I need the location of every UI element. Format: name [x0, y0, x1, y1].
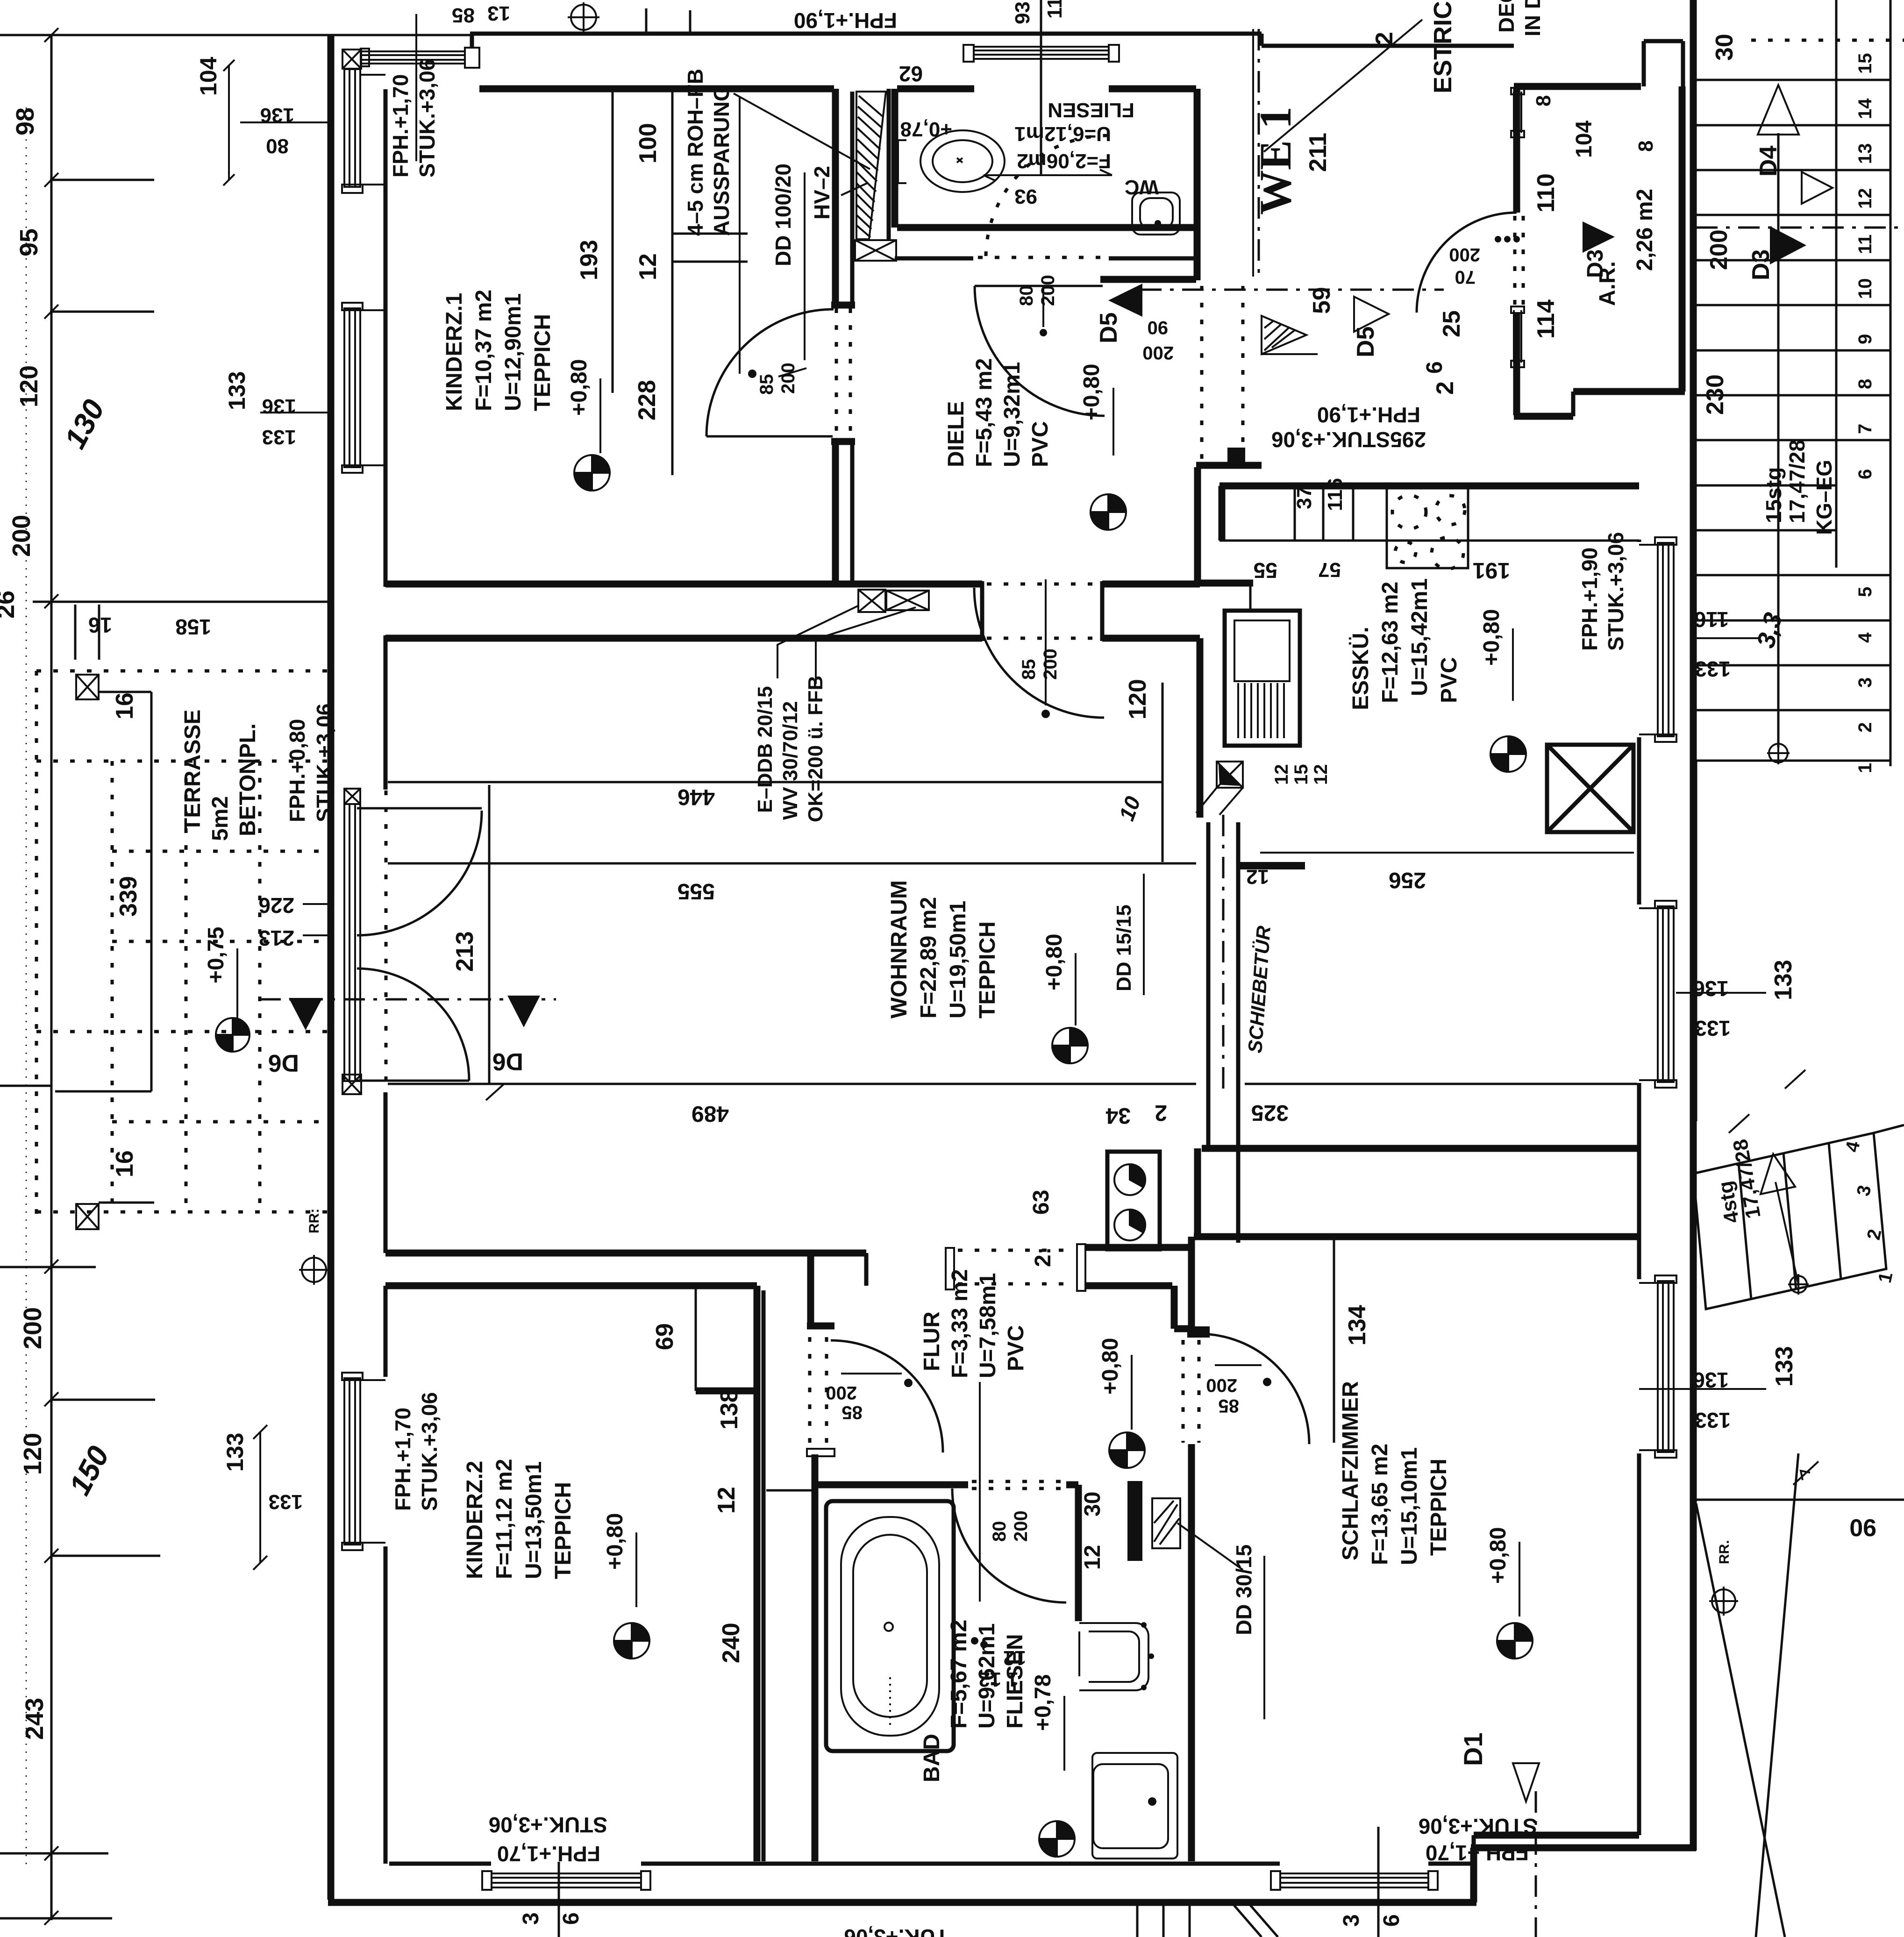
svg-text:D6: D6: [492, 1048, 523, 1075]
svg-text:133: 133: [1771, 1346, 1798, 1387]
svg-text:37: 37: [1293, 486, 1316, 509]
wall WC south lower line w/ door opening: [895, 256, 973, 261]
svg-text:69: 69: [651, 1323, 678, 1350]
svg-text:F=5,43 m2: F=5,43 m2: [972, 358, 997, 467]
stair walk line circle: [1767, 742, 1790, 764]
stair walk line: [1777, 133, 1780, 748]
wall west inner WOHNRAUM: [384, 635, 388, 790]
hoehenkote KINDERZ.2: [614, 1623, 649, 1659]
svg-text:U=19,50m1: U=19,50m1: [946, 901, 970, 1018]
SEC:BOTTOM: [0, 28, 336, 1925]
svg-text:57: 57: [1318, 558, 1341, 581]
svg-text:TUK.+3,06: TUK.+3,06: [844, 1925, 948, 1937]
dim extension line through window: [415, 14, 417, 161]
WC pan BAD: [1079, 1623, 1148, 1690]
svg-text:200: 200: [1142, 342, 1174, 363]
door A.R. swing arc: [1417, 213, 1517, 313]
chain tick y2711: [0, 1266, 96, 1268]
svg-text:AUSSPARUNG: AUSSPARUNG: [709, 85, 734, 236]
dim line 133 window1: [260, 412, 331, 413]
wall DIELE north jog: [1100, 276, 1196, 283]
svg-text:DECK: DECK: [1494, 0, 1519, 33]
svg-text:116: 116: [1694, 607, 1729, 632]
door KINDERZ.1 leaf: [706, 435, 833, 438]
svg-text:RR.: RR.: [1717, 1540, 1732, 1564]
svg-text:FLIESEN: FLIESEN: [1048, 99, 1134, 121]
svg-text:6: 6: [559, 1912, 584, 1925]
svg-text:133: 133: [222, 1433, 248, 1472]
jamb west of FLUR opening: [946, 1248, 954, 1289]
dim 213 line: [488, 785, 491, 1083]
wall west outer: [328, 35, 335, 1900]
chain tick y75: [0, 34, 154, 36]
chain 93/11 top: [1040, 0, 1042, 175]
dim 134 line: [1333, 1239, 1335, 1443]
svg-text:110: 110: [1533, 173, 1560, 213]
interior dim lines KINDERZ.1: [613, 92, 672, 475]
svg-text:191: 191: [1473, 558, 1510, 583]
wall SCHLAFZIMMER west upper: [1188, 1237, 1195, 1326]
svg-text:BETONPL.: BETONPL.: [235, 723, 260, 836]
terrace door leaf lower: [357, 1080, 469, 1082]
svg-text:STUK.+3,06: STUK.+3,06: [312, 704, 336, 822]
terrace X-box top: [76, 675, 99, 699]
svg-text:+0,80: +0,80: [1479, 609, 1504, 666]
RR symbol right: [1709, 1587, 1738, 1616]
svg-text:93: 93: [1011, 1, 1034, 24]
svg-text:138: 138: [716, 1389, 743, 1430]
svg-text:25: 25: [1438, 310, 1465, 337]
wall WC south inner: [897, 224, 1196, 231]
RR symbol left: [299, 1255, 329, 1285]
dim line 489: [388, 1083, 1196, 1085]
window WC 62: [963, 45, 1119, 62]
svg-text:SCHLAFZIMMER: SCHLAFZIMMER: [1338, 1381, 1363, 1560]
svg-text:16: 16: [111, 1150, 138, 1177]
svg-text:+0,80: +0,80: [1042, 934, 1067, 990]
svg-text:KINDERZ.1: KINDERZ.1: [442, 293, 467, 411]
wall BAD east: [1075, 1485, 1082, 1621]
section line D5-D5: [1140, 289, 1444, 291]
svg-text:6: 6: [1422, 361, 1447, 374]
svg-text:F=22,89 m2: F=22,89 m2: [916, 897, 941, 1018]
svg-text:U=6,12m1: U=6,12m1: [1014, 122, 1111, 145]
svg-text:TEPPICH: TEPPICH: [530, 314, 555, 411]
svg-text:3: 3: [1339, 1914, 1364, 1927]
svg-text:FPH.+1,90: FPH.+1,90: [794, 8, 897, 33]
dim 555 line: [388, 862, 1196, 865]
svg-text:DD 30/15: DD 30/15: [1232, 1545, 1256, 1635]
stair landing bottom: [1695, 761, 1697, 1121]
stair treads 15stg: [1696, 80, 1890, 761]
svg-text:D4: D4: [1755, 145, 1782, 177]
hoehenkote KINDERZ.1: [574, 455, 610, 491]
wall WC east: [1194, 89, 1201, 280]
svg-text:U=13,50m1: U=13,50m1: [521, 1461, 546, 1579]
dim 133 cluster KINDERZ.2 window: [253, 1425, 267, 1570]
svg-text:10: 10: [1855, 278, 1875, 299]
svg-text:63: 63: [1029, 1190, 1054, 1215]
terrace door arc lower: [357, 968, 469, 1081]
wall FLUR north segment east: [1085, 1244, 1191, 1251]
svg-text:133: 133: [1695, 1408, 1731, 1432]
svg-text:12: 12: [1271, 764, 1292, 785]
svg-text:120: 120: [15, 365, 43, 407]
dim line 136/80: [240, 121, 331, 123]
svg-text:243: 243: [21, 1698, 49, 1740]
svg-text:U=9,32m1: U=9,32m1: [1000, 362, 1025, 468]
svg-text:104: 104: [195, 57, 221, 96]
D1 section dash-dot: [1535, 1791, 1537, 1937]
svg-text:15: 15: [1291, 764, 1312, 785]
D6 marker right filled triangle: [507, 996, 540, 1027]
svg-text:85: 85: [842, 1402, 863, 1423]
svg-text:FPH.+1,90: FPH.+1,90: [1317, 403, 1420, 427]
svg-text:TEPPICH: TEPPICH: [975, 921, 1000, 1018]
ext lines 16/158: [75, 605, 99, 660]
terrace solid edges: [55, 692, 154, 1203]
chain slashes: [44, 28, 58, 1925]
crossed block right of X-box: [886, 591, 929, 610]
chain vertical line: [50, 35, 53, 1920]
tick slash SE corner: [1793, 1461, 1818, 1485]
door SCHLAFZIMMER dotted opening: [1183, 1340, 1199, 1443]
svg-text:E–DDB 20/15: E–DDB 20/15: [754, 686, 777, 813]
stove outline: [1387, 489, 1468, 568]
wall north KINDERZ.1 inner: [479, 85, 834, 93]
D3 triangle filled: [1770, 226, 1806, 264]
svg-text:5m2: 5m2: [208, 796, 233, 841]
cluster 116/133 mid: [1696, 637, 1761, 639]
hoehenkote DIELE: [1091, 494, 1126, 530]
svg-text:1: 1: [1855, 763, 1875, 773]
svg-text:555: 555: [677, 879, 715, 904]
dotted inner face across terrace door: [385, 790, 388, 1083]
svg-text:12: 12: [1855, 188, 1875, 209]
wall corridor east segment: [1194, 467, 1201, 586]
apartment boundary dash line WE1: [1258, 29, 1260, 277]
svg-text:6: 6: [1379, 1914, 1404, 1927]
link corner to counter: [1249, 586, 1252, 611]
svg-text:WOHNRAUM: WOHNRAUM: [887, 880, 912, 1018]
stair tread numbers: [1855, 53, 1875, 774]
svg-text:93: 93: [1014, 185, 1037, 208]
svg-text:3: 3: [519, 1912, 543, 1925]
SEC:TOPAREA: [259, 358, 1637, 1285]
tick slash D6: [486, 1083, 505, 1100]
wall band connector: [1194, 1148, 1201, 1237]
D4 triangle outline: [1802, 172, 1833, 204]
X-box KINDERZ.1 SE corner: [858, 590, 885, 612]
wall kitchen/WOHNRAUM divider: [1197, 638, 1204, 818]
svg-text:8: 8: [1634, 141, 1657, 152]
WC washbasin: [898, 130, 1005, 192]
svg-text:100: 100: [635, 123, 662, 164]
svg-text:133: 133: [1695, 1016, 1731, 1040]
svg-text:200: 200: [1705, 229, 1733, 270]
chain tick y3967: [0, 1852, 108, 1855]
door SCHLAFZIMMER jamb: [1187, 1326, 1210, 1338]
D1 triangle: [1513, 1763, 1539, 1802]
svg-text:213: 213: [258, 926, 294, 950]
door KINDERZ.1 swing arc: [706, 309, 834, 436]
door DIELE jamb black: [1227, 448, 1245, 465]
svg-text:IN DE: IN DE: [1520, 0, 1545, 36]
svg-text:133: 133: [1695, 657, 1731, 681]
stair up arrow: [1758, 85, 1799, 135]
svg-text:34: 34: [1105, 1103, 1131, 1128]
chain tick y2324: [0, 1085, 51, 1087]
svg-text:200: 200: [1206, 1375, 1237, 1396]
door KINDERZ.1 jamb top: [831, 302, 855, 309]
wall FLUR west lower / BAD west: [812, 1454, 819, 1861]
D5 triangle left filled: [1108, 284, 1142, 317]
svg-text:3: 3: [1855, 677, 1875, 688]
svg-text:WE 1: WE 1: [1250, 107, 1300, 215]
svg-text:U=9,62m1: U=9,62m1: [975, 1624, 999, 1729]
cluster 136/133 lower right: [1639, 1388, 1766, 1390]
wall east inner: [1637, 540, 1641, 1835]
svg-text:U=15,42m1: U=15,42m1: [1407, 578, 1432, 696]
svg-text:+0,80: +0,80: [1079, 364, 1104, 420]
svg-text:+0,80: +0,80: [1098, 1338, 1123, 1395]
wall north step at window end: [470, 34, 474, 49]
svg-text:FPH.+1,70: FPH.+1,70: [391, 1408, 415, 1511]
dim line top: [50, 34, 472, 36]
svg-text:WV 30/70/12: WV 30/70/12: [779, 701, 802, 820]
svg-text:BAD: BAD: [920, 1734, 944, 1782]
wall band WOHNRAUM south upper: [385, 1250, 866, 1257]
svg-text:STUK.+3,06: STUK.+3,06: [1604, 532, 1628, 651]
window A.R. west 2: [1511, 306, 1524, 367]
wall south inner mid: [641, 1862, 1280, 1866]
svg-text:133: 133: [262, 426, 296, 449]
svg-text:80: 80: [1016, 285, 1037, 306]
kitchen drainer stripes: [1238, 683, 1284, 738]
svg-text:12: 12: [635, 253, 662, 280]
svg-text:STUK.+3,06: STUK.+3,06: [489, 1813, 607, 1837]
wall band WOHNRAUM south lower: [385, 1282, 757, 1289]
svg-text:+0,80: +0,80: [567, 359, 592, 416]
svg-text:85: 85: [1019, 659, 1039, 680]
svg-text:80: 80: [266, 135, 289, 157]
svg-text:FPH.+1,70: FPH.+1,70: [1426, 1841, 1529, 1865]
band cell dividers: [1295, 489, 1353, 541]
door KINDERZ.1 dashed opening: [836, 308, 850, 438]
svg-text:14: 14: [1855, 98, 1875, 119]
svg-text:12: 12: [1080, 1545, 1105, 1570]
svg-text:13: 13: [1855, 143, 1875, 164]
svg-text:339: 339: [115, 876, 142, 917]
niche KINDERZ.2 NE: [695, 1288, 697, 1391]
svg-text:KG–EG: KG–EG: [1812, 460, 1836, 535]
door DIELE-corridor dotted opening: [1202, 286, 1243, 461]
shaft right wall: [887, 89, 891, 239]
wall south inner right: [1428, 1862, 1474, 1866]
svg-text:KINDERZ.2: KINDERZ.2: [463, 1461, 487, 1579]
diagonal site line A: [1696, 1503, 1785, 1937]
wall top outer right: [1260, 34, 1264, 46]
wall SCHLAFZIMMER west lower: [1188, 1444, 1195, 1861]
ticks above top line: [646, 8, 690, 34]
wall DIELE SE corner step: [1198, 580, 1253, 587]
svg-text:TERRASSE: TERRASSE: [180, 710, 205, 832]
svg-text:FPH.+0,80: FPH.+0,80: [285, 719, 309, 822]
label 3 6 bottom right: [1377, 1827, 1380, 1937]
svg-text:11: 11: [1855, 235, 1875, 254]
svg-text:DD 100/20: DD 100/20: [771, 164, 795, 266]
wall WC north inner left: [897, 85, 974, 93]
window west W3 terrace window-door: [344, 804, 360, 1081]
window east dining lower: [1639, 901, 1676, 1088]
hoehenkote BAD: [1039, 1821, 1075, 1857]
svg-text:2,26 m2: 2,26 m2: [1633, 189, 1657, 271]
svg-text:90: 90: [1148, 317, 1169, 338]
sliding door stub: [1240, 862, 1305, 869]
svg-text:STUK.+3,06: STUK.+3,06: [415, 59, 439, 178]
wall top-left window band: [361, 48, 479, 68]
svg-text:120: 120: [1124, 679, 1151, 719]
wall BAD north: [815, 1481, 968, 1488]
svg-text:136: 136: [1693, 976, 1729, 1001]
svg-text:489: 489: [692, 1101, 729, 1126]
svg-text:+0,78: +0,78: [1031, 1674, 1055, 1731]
counter band line: [1219, 540, 1639, 542]
dim 256 line: [1260, 852, 1634, 854]
door SCHLAFZIMMER swing arc: [1199, 1334, 1309, 1444]
wall west inner KINDERZ.1: [384, 89, 388, 587]
diagonal site line B: [1756, 1453, 1798, 1937]
svg-text:59: 59: [1308, 287, 1335, 314]
leader to DD 30/15: [1177, 1523, 1243, 1570]
svg-text:4: 4: [1855, 632, 1875, 643]
window east SCHLAFZIMMER: [1639, 1275, 1676, 1458]
svg-text:ESSKÜ.: ESSKÜ.: [1348, 627, 1373, 710]
svg-text:16: 16: [111, 692, 138, 719]
chain tick y385: [50, 179, 154, 181]
window south SCHLAFZIMMER: [1271, 1871, 1438, 1890]
wall east outer: [1690, 0, 1697, 1851]
4stg stair outline: [1693, 1133, 1886, 1309]
svg-text:FPH.+1,90: FPH.+1,90: [1577, 548, 1602, 651]
leader polyline 2: [816, 607, 916, 684]
svg-text:STUK.+3,06: STUK.+3,06: [1419, 1814, 1537, 1838]
washbasin BAD: [1092, 1753, 1177, 1859]
X-box corner top-left: [342, 50, 361, 69]
svg-text:211: 211: [1305, 133, 1332, 172]
dim 120 line: [1162, 683, 1164, 862]
svg-text:FPH.+1,70: FPH.+1,70: [497, 1842, 600, 1866]
door BAD dotted opening: [972, 1481, 1061, 1488]
chain tick y4106: [0, 1917, 112, 1920]
svg-text:200: 200: [826, 1382, 857, 1403]
tick circle-cross top: [568, 2, 599, 33]
wall top outer mid: [470, 32, 1262, 36]
door KINDERZ.1 jamb bottom: [831, 438, 855, 445]
svg-text:85: 85: [452, 4, 475, 27]
svg-text:200: 200: [1040, 648, 1061, 680]
terrace X-box bottom: [76, 1204, 99, 1229]
dim line 90 right: [1696, 1499, 1904, 1501]
chain dotted vertical: [26, 107, 27, 1864]
chimney shaft hatched triangle: [856, 92, 886, 239]
window A.R. west 1: [1511, 88, 1524, 137]
wall south inner left: [389, 1862, 491, 1866]
svg-text:30: 30: [1080, 1492, 1105, 1517]
hoehenkote terrace: [216, 1018, 250, 1052]
svg-text:PVC: PVC: [1004, 1325, 1028, 1371]
dim line 325: [1245, 1083, 1637, 1085]
stair right edge: [1890, 0, 1892, 766]
wall south outer right: [1471, 1844, 1696, 1852]
wall south step: [1470, 1848, 1477, 1902]
svg-text:26: 26: [0, 591, 20, 619]
SEC:WALLS: [50, 0, 1738, 491]
svg-text:136: 136: [1693, 1368, 1729, 1392]
svg-text:200: 200: [1011, 1510, 1031, 1542]
wall band SCHLAFZIMMER north upper: [1202, 1145, 1639, 1152]
chain tick y667: [50, 311, 154, 313]
svg-text:98: 98: [11, 107, 39, 135]
wall A.R. top: [1514, 83, 1641, 90]
ticks 226/213: [303, 904, 333, 935]
X-box chimney dining: [1547, 745, 1633, 832]
wall KINDERZ.1 east lower: [832, 444, 839, 587]
svg-text:2: 2: [1155, 1100, 1167, 1125]
svg-text:U=15,10m1: U=15,10m1: [1397, 1447, 1422, 1565]
svg-text:F=12,63 m2: F=12,63 m2: [1378, 582, 1403, 703]
svg-text:6: 6: [1855, 469, 1875, 479]
svg-text:F=2,06m2: F=2,06m2: [1017, 150, 1111, 172]
svg-text:136: 136: [262, 395, 296, 418]
svg-text:PVC: PVC: [1028, 421, 1053, 467]
svg-text:F=11,12 m2: F=11,12 m2: [492, 1459, 517, 1579]
svg-text:OK=200 ü. FFB: OK=200 ü. FFB: [804, 676, 827, 822]
svg-text:15: 15: [1855, 53, 1875, 74]
svg-text:200: 200: [19, 1307, 47, 1349]
floor drain symbol: [1196, 762, 1243, 815]
door BAD swing arc: [952, 1488, 1066, 1602]
wall band SCHLAFZIMMER north lower: [1194, 1233, 1639, 1240]
svg-text:DIELE: DIELE: [944, 401, 969, 467]
stove 4 dashed circles: [1392, 495, 1465, 569]
svg-text:F=13,65 m2: F=13,65 m2: [1368, 1444, 1392, 1565]
svg-text:U=12,90m1: U=12,90m1: [501, 293, 526, 411]
jamb east of FLUR opening: [1077, 1244, 1085, 1291]
svg-text:136: 136: [260, 104, 294, 127]
svg-text:HV–2: HV–2: [810, 166, 834, 220]
terrace door leaf upper: [357, 807, 482, 810]
svg-text:55: 55: [1254, 558, 1277, 583]
svg-text:133: 133: [1770, 960, 1797, 1000]
svg-text:FPH.+1,70: FPH.+1,70: [388, 74, 413, 178]
wall kitchen north west corner: [1219, 486, 1226, 541]
D6 section dash left: [259, 998, 556, 1001]
flue circle 2: [1114, 1210, 1145, 1240]
svg-text:DD 15/15: DD 15/15: [1112, 904, 1135, 991]
svg-text:90: 90: [1849, 1514, 1876, 1541]
svg-text:U=7,58m1: U=7,58m1: [976, 1273, 1000, 1379]
terrace dotted grid horizontals: [36, 671, 333, 1212]
svg-text:200: 200: [7, 515, 36, 557]
sliding door pocket lines: [1208, 822, 1238, 1243]
WC pan: [1132, 192, 1180, 235]
door DIELE swing arc: [975, 286, 1105, 416]
svg-text:FLUR: FLUR: [920, 1311, 944, 1371]
svg-text:200: 200: [1038, 275, 1058, 306]
hoehenkote kitchen: [1490, 736, 1526, 772]
SEC:LEFT: [1639, 0, 1904, 1432]
